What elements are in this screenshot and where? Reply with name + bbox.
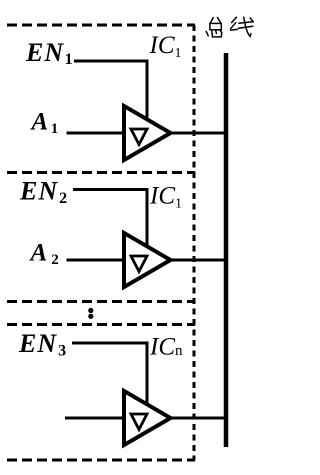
tri-state buffer U2 (triangle) xyxy=(124,233,171,287)
svg-text:A1: A1 xyxy=(30,109,59,138)
wire: input A2 to buffer U2 xyxy=(67,259,125,262)
svg-text:EN1: EN1 xyxy=(25,38,74,68)
dashed boundary: top edge of ICn section xyxy=(7,323,195,326)
dashed boundary: divider between IC1 and IC2 sections xyxy=(7,171,195,174)
tri-state buffer U1 (triangle) xyxy=(124,106,171,160)
buffer U3 inner nabla mark xyxy=(131,414,147,430)
dashed boundary: bottom edge of second section xyxy=(7,300,195,303)
wire: EN2 vertical drop to U2 enable pin xyxy=(146,188,149,247)
dashed boundary: bottom edge of ICn section xyxy=(7,459,195,462)
dashed boundary: top edge of IC1 section xyxy=(7,24,195,27)
svg-text:EN3: EN3 xyxy=(18,329,67,360)
svg-text:IC1: IC1 xyxy=(149,32,182,61)
wire: EN1 vertical drop to U1 enable pin xyxy=(146,60,149,121)
ellipsis dots (continuation between sections) xyxy=(88,308,93,319)
wire: U3 output to bus xyxy=(170,417,226,420)
svg-text:EN2: EN2 xyxy=(19,177,68,208)
wire: input A1 to buffer U1 xyxy=(67,132,125,135)
wire: EN3 vertical drop to U3 enable pin xyxy=(146,342,149,406)
wire: U2 output to bus xyxy=(170,259,226,262)
svg-text:IC1: IC1 xyxy=(149,183,182,212)
dashed boundary: right vertical edge of all sections xyxy=(193,25,196,460)
buffer U1 inner nabla mark xyxy=(131,129,147,145)
tri-state buffer U3 (triangle) xyxy=(124,391,171,445)
bus line (net 总线) xyxy=(224,53,229,447)
svg-text:ICn: ICn xyxy=(149,334,183,361)
wire: U1 output to bus xyxy=(170,132,226,135)
wire: EN1 horizontal segment xyxy=(74,60,149,63)
svg-text:A2: A2 xyxy=(29,240,59,269)
wire: input to buffer U3 (unlabeled) xyxy=(65,417,124,420)
buffer U2 inner nabla mark xyxy=(131,256,147,272)
label 总线 (bus) : hand-drawn CJK strokes xyxy=(206,17,253,37)
wire: EN3 horizontal segment xyxy=(72,342,149,345)
wire: EN2 horizontal segment xyxy=(73,188,149,191)
